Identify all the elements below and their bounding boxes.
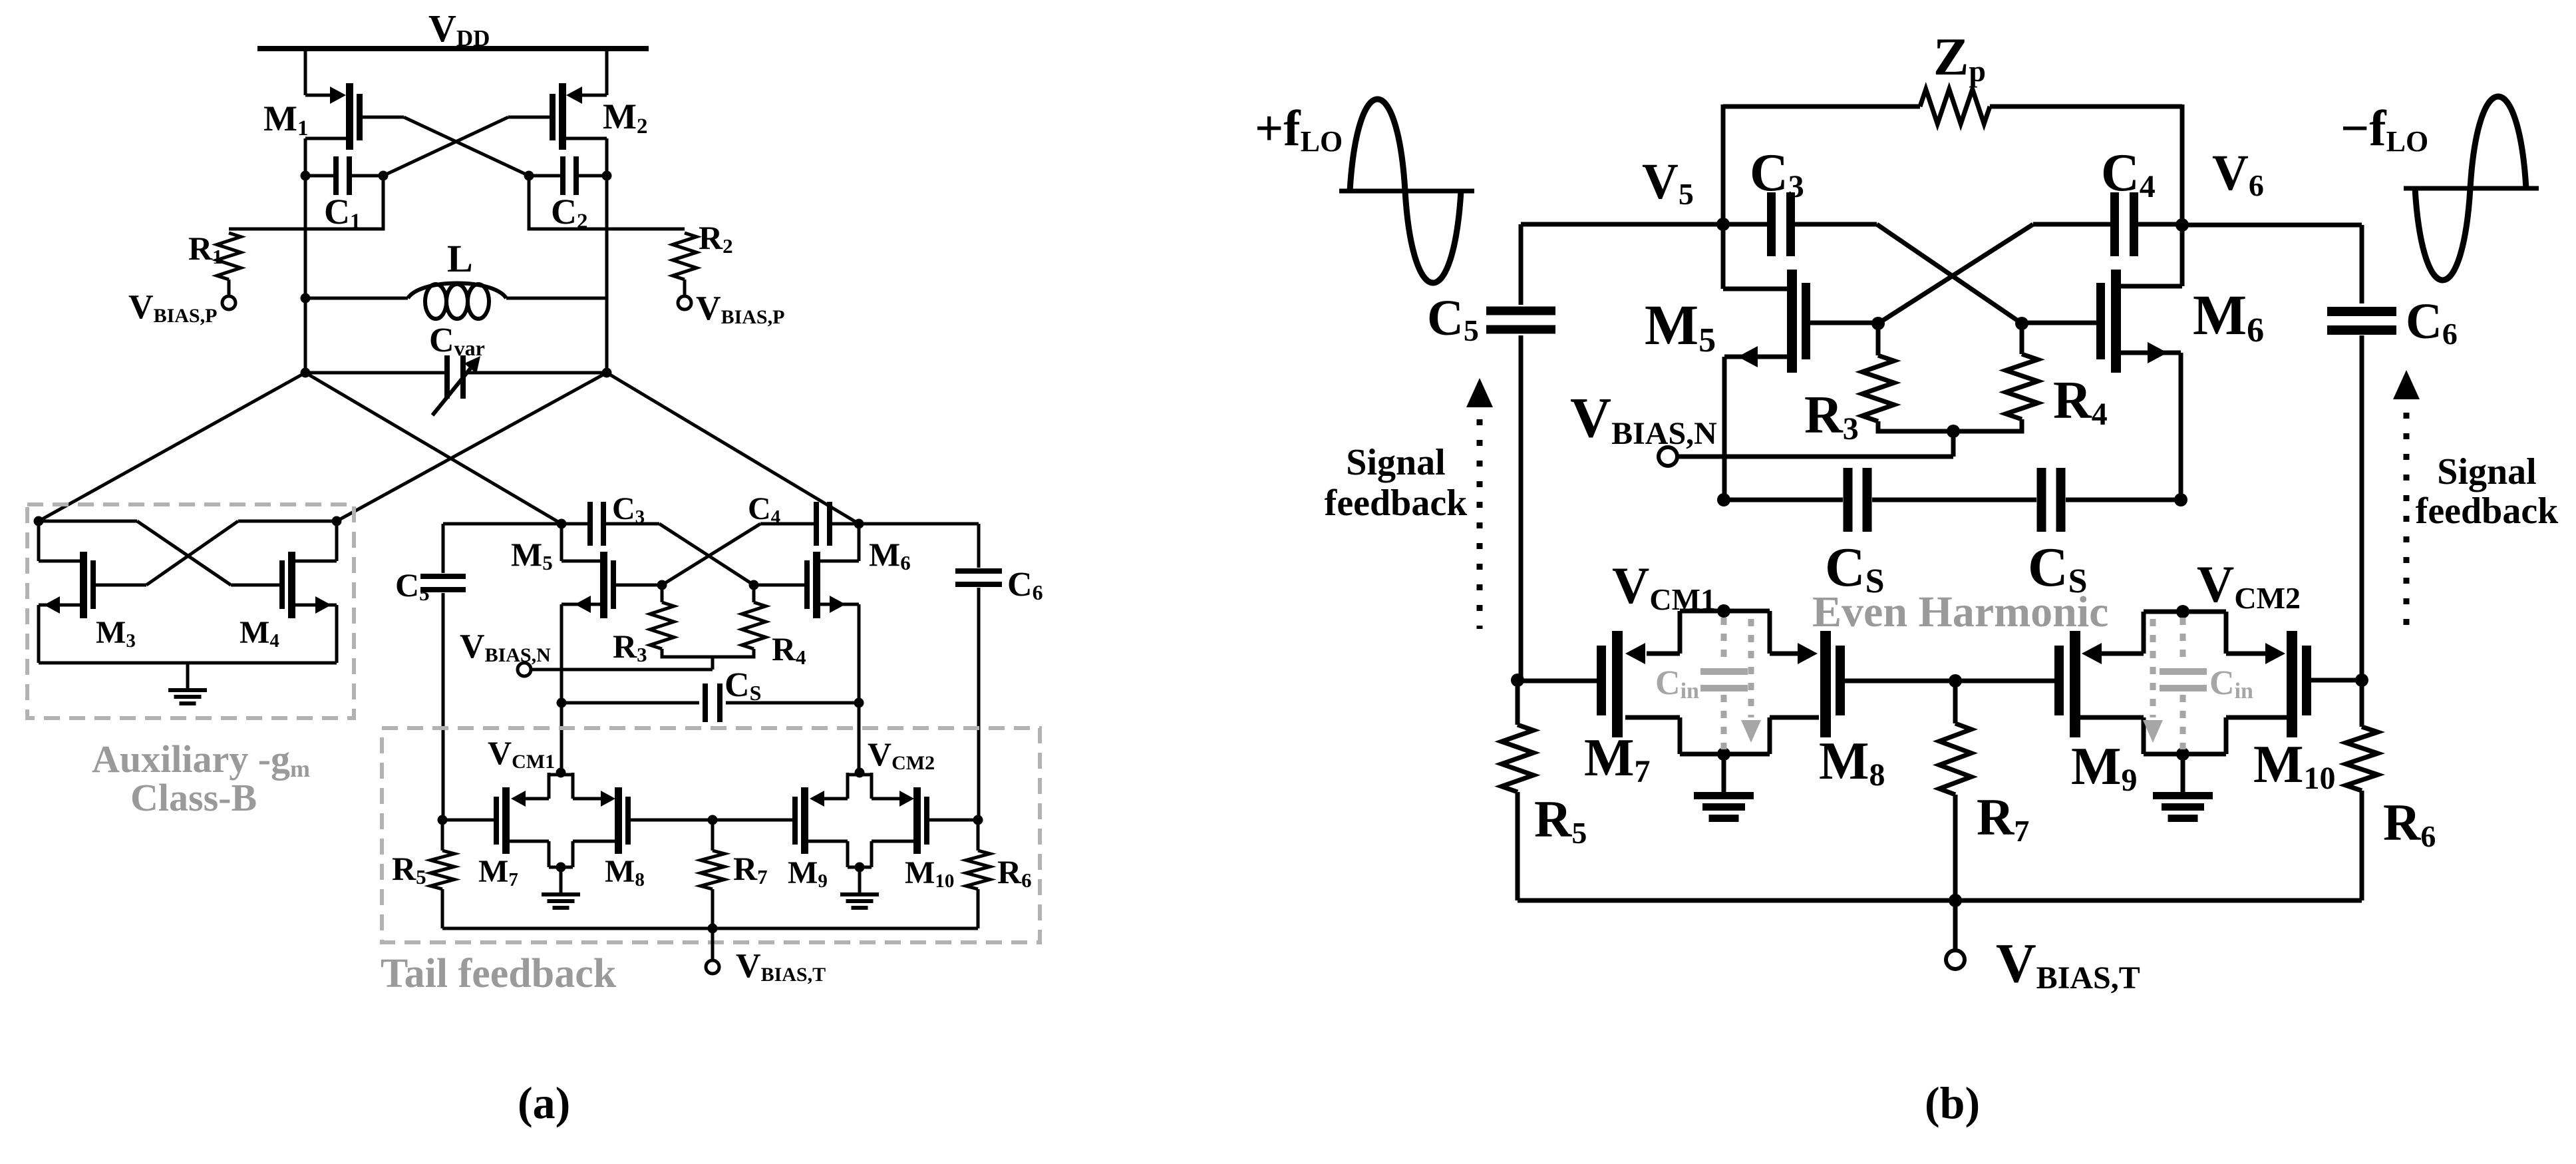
node M6 drain / tank-right diag: [854, 519, 864, 529]
label R3 (b): [1804, 386, 1859, 447]
label Cin (b right): [2209, 664, 2253, 703]
label VBIAS,T (a): [736, 947, 826, 986]
label M9 (a): [788, 855, 828, 892]
label M6 (b): [2193, 283, 2264, 349]
label M3: [96, 615, 136, 652]
resistor R4 (a): [713, 585, 766, 657]
label -fLO: [2340, 100, 2428, 158]
wire tail bottom rail (a): [442, 927, 978, 930]
transistor M2 (PMOS): [508, 51, 607, 373]
transistor M8 (b): [1820, 631, 2054, 737]
wire C5 drop (b): [1519, 224, 1524, 305]
node aux top-left: [34, 516, 44, 526]
transistor M8 (a): [615, 787, 790, 854]
resistor R6 (b): [2346, 680, 2378, 900]
node bridge bottom (a left): [556, 863, 566, 873]
wire V6 row right: [2182, 223, 2362, 228]
svg-text:L: L: [447, 237, 473, 280]
wire tank-left to M5 drain (diagonal): [305, 373, 562, 524]
label Zp: [1933, 28, 1986, 88]
wire C6 drop (a): [977, 524, 981, 568]
node R3R4 junction (b): [1947, 425, 1960, 438]
label Class-B: [130, 776, 257, 819]
wire C4 rail left corner: [760, 522, 814, 526]
wire C4 to M5 gate (diagonal): [662, 524, 760, 585]
svg-text:Signal: Signal: [2437, 451, 2536, 492]
label M10 (a): [905, 855, 954, 892]
label feedback (left): [1325, 483, 1468, 524]
label VDD: [428, 7, 490, 51]
label R6 (b): [2383, 793, 2436, 853]
label R4 (a): [772, 630, 806, 669]
label R5 (a): [392, 850, 426, 888]
label Cin (b left): [1655, 664, 1699, 703]
wire C6 drop (b): [2360, 225, 2364, 303]
capacitor C5 (a): [420, 574, 466, 820]
terminal VBIAS,P right: [678, 296, 691, 309]
terminal VBIAS,N (a): [518, 663, 531, 676]
bridge arms M9/M10 (a): [808, 773, 915, 867]
node bridge bottom (a right): [855, 863, 865, 873]
label M9 (b): [2071, 737, 2138, 798]
label Cs (a): [724, 666, 761, 705]
transistor M5 (a): [562, 524, 662, 773]
node tank right: [602, 368, 612, 378]
transistor M1 (PMOS): [305, 51, 404, 373]
node VCM1 (a): [556, 768, 566, 778]
resistor R3 (a): [650, 585, 713, 657]
wire Cs right (a): [726, 701, 859, 705]
node R7 top (a): [708, 815, 718, 825]
node VCM2 (a): [855, 768, 865, 778]
label C3 (b): [1750, 144, 1804, 204]
node M2 drain / C2 right: [602, 171, 612, 181]
sine wave +fLO: [1339, 99, 1474, 283]
node VCM1 (b): [1717, 604, 1730, 618]
bridge arms M7/M8 (a): [510, 773, 617, 867]
transistor M10 (a): [913, 787, 978, 854]
node R5 / M7 gate (a): [438, 815, 448, 825]
label VBIAS,P right: [696, 290, 784, 328]
label C4 (b): [2101, 144, 2156, 204]
node V5: [1716, 218, 1730, 231]
transistor M7 (a): [442, 787, 510, 854]
wire aux top-right rail: [238, 520, 337, 523]
transistor M6 (b): [2022, 225, 2182, 500]
label V6: [2212, 145, 2264, 202]
node M6 gate / R4: [749, 580, 759, 590]
ground (aux pair): [168, 663, 207, 705]
wire M3 gate cross diagonal: [146, 521, 238, 585]
capacitor Cs right (b): [2037, 468, 2181, 532]
resistor R6 (a): [966, 820, 990, 928]
capacitor C4 (a): [814, 502, 859, 546]
node Cs right / M6 source: [854, 698, 864, 708]
node Cs-right / M6 source (b): [2174, 493, 2187, 506]
wire bottom rail (b): [1518, 898, 2362, 903]
label Signal (left): [1346, 442, 1445, 483]
terminal VBIAS,N (b): [1659, 447, 1677, 466]
label M8 (a): [605, 854, 645, 890]
wire C2-left node down to R2: [529, 176, 685, 229]
capacitor C6 (a): [955, 568, 1002, 820]
net VDD power rail: [257, 46, 649, 51]
sine wave -fLO: [2404, 97, 2539, 280]
label +fLO: [1255, 100, 1343, 158]
terminal VBIAS,T (a): [706, 960, 719, 974]
label C6 (b): [2406, 293, 2458, 351]
label R4 (b): [2053, 371, 2108, 432]
node M5 gate / R3 (b): [1871, 317, 1885, 330]
label Signal (right): [2437, 451, 2536, 492]
node Cs left / M5 source: [557, 698, 567, 708]
svg-text:Signal: Signal: [1346, 442, 1445, 483]
signal feedback arrow right: [2393, 370, 2420, 626]
label VCM1 (a): [488, 734, 555, 773]
wire M4 gate cross diagonal: [137, 521, 231, 585]
dashed box Auxiliary class-B: [27, 504, 354, 718]
node inductor left: [301, 293, 311, 303]
label M4: [240, 615, 279, 652]
node VCM2 (b): [2176, 605, 2189, 618]
wire VBIAS,N line (b): [1677, 455, 1953, 459]
svg-text:Auxiliary -gm: Auxiliary -gm: [92, 737, 310, 782]
label C5 (b): [1427, 290, 1479, 347]
transistor M6 (a): [754, 524, 859, 773]
bridge arms M7/M8 (b): [1625, 611, 1819, 754]
svg-text:Class-B: Class-B: [130, 776, 257, 819]
label M2: [603, 97, 647, 138]
label R5 (b): [1534, 790, 1587, 850]
wire C4 rail to C6: [859, 522, 979, 526]
wire C4 to M5 gate diagonal (b): [1878, 224, 2033, 323]
label M10 (b): [2253, 735, 2336, 796]
capacitor C3 (b): [1723, 192, 1877, 256]
resistor R5 (b): [1502, 680, 1533, 900]
label M7 (b): [1584, 729, 1651, 789]
label Even Harmonic: [1812, 588, 2108, 636]
node R5 / M7 gate (b): [1511, 674, 1524, 687]
label Cs left (b): [1825, 536, 1885, 600]
wire M1 gate to C2 left plate (diagonal): [404, 117, 529, 176]
wire Zp rail left: [1723, 104, 1920, 224]
label C1: [324, 192, 361, 234]
wire tank-right to aux box (diagonal): [337, 373, 607, 521]
label L: [447, 237, 473, 280]
label V5: [1642, 154, 1694, 211]
wire tank-left to aux box (diagonal): [39, 373, 305, 521]
inductor L: [305, 284, 607, 319]
wire tank-right to M6 drain (diagonal): [607, 373, 859, 524]
resistor R1: [217, 233, 241, 295]
label VCM2 (a): [868, 735, 935, 774]
label VBIAS,N (b): [1570, 385, 1717, 451]
transistor M3 (NMOS): [39, 521, 146, 663]
label VBIAS,T (b): [1996, 932, 2140, 996]
label Cvar: [429, 321, 485, 360]
node R6 / M10 gate / C6 (b): [2355, 674, 2368, 687]
wire C3 to M6 gate diagonal (b): [1877, 224, 2022, 323]
label M5 (a): [511, 536, 553, 574]
transistor M7 (b): [1518, 631, 1623, 737]
transistor M9 (b): [2054, 631, 2080, 737]
wire C3 left rail: [443, 522, 588, 526]
resistor R4 (b): [1953, 323, 2038, 431]
label C5 (a): [395, 566, 430, 605]
label R2: [699, 219, 733, 258]
svg-text:Tail feedback: Tail feedback: [381, 951, 617, 996]
capacitor Cs (a): [703, 683, 723, 722]
capacitor C2: [529, 156, 607, 195]
capacitor Cin (b right, parasitic): [2143, 618, 2207, 749]
varactor Cvar: [305, 355, 607, 415]
caption (a): [518, 1077, 570, 1128]
ground (M7/M8 a): [542, 867, 580, 910]
ground (M9/M10 a): [840, 867, 879, 910]
node aux top-right: [332, 516, 342, 526]
transistor M5 (b): [1723, 224, 1878, 500]
label R6 (a): [997, 853, 1032, 892]
wire Cs left (a): [562, 701, 699, 705]
resistor R5 (a): [430, 820, 454, 928]
node R6 / M10 gate (a): [973, 815, 983, 825]
signal feedback arrow left: [1466, 378, 1493, 629]
wire C1-right node down to R1: [229, 176, 383, 229]
transistor M10 (b): [2287, 631, 2362, 737]
terminal VBIAS,T (b): [1946, 950, 1965, 969]
wire VBIAS,T stem (a): [711, 928, 715, 960]
wire R3R4 to bias line (b): [1951, 431, 1956, 457]
label M8 (b): [1819, 732, 1885, 793]
node Cs-left / M5 source (b): [1717, 493, 1730, 506]
capacitor C6 (b): [2327, 307, 2396, 680]
resistor R7 (b): [1939, 681, 1971, 900]
label C2: [551, 192, 588, 234]
node M6 gate / R4 (b): [2015, 317, 2028, 330]
wire VBIAS,N line (a): [531, 668, 713, 672]
svg-text:Even Harmonic: Even Harmonic: [1812, 588, 2108, 636]
label M1: [263, 98, 308, 140]
node M1 drain / C1 left: [301, 171, 311, 181]
node VBIAS,T tap (a): [708, 924, 718, 934]
node bridge bottom (b left): [1717, 747, 1730, 761]
node C2 left (M1 gate bias): [524, 171, 534, 181]
wire C3 to M6 gate (diagonal): [659, 524, 754, 585]
label VCM1 (b): [1612, 556, 1716, 616]
wire R3R4 junction drop: [711, 657, 715, 670]
caption (b): [1925, 1077, 1980, 1128]
wire VBIAS,T stem (b): [1953, 900, 1958, 950]
label R7 (a): [733, 850, 768, 888]
label R3 (a): [613, 628, 647, 666]
label Cs right (b): [2028, 536, 2088, 600]
resistor R7 (a): [701, 820, 724, 928]
capacitor C5 (b): [1486, 307, 1555, 681]
wire aux source rail: [39, 662, 337, 665]
bridge arms M9/M10 (b): [2080, 612, 2287, 754]
node tank left: [301, 368, 311, 378]
capacitor C1: [305, 156, 383, 195]
resistor R2: [673, 233, 697, 295]
resistor R3 (b): [1862, 323, 1953, 431]
label VBIAS,P left: [128, 288, 217, 327]
capacitor C4 (b): [2033, 192, 2182, 256]
label Auxiliary -gm: [92, 737, 310, 782]
dashed box Tail feedback: [382, 728, 1040, 942]
label R7 (b): [1977, 788, 2029, 848]
ground (M7/M8 b): [1694, 754, 1754, 822]
node V6: [2175, 218, 2189, 232]
svg-text:feedback: feedback: [2416, 490, 2559, 532]
node bridge bottom (b right): [2176, 747, 2189, 761]
label M5 (b): [1645, 293, 1716, 359]
wire M2 gate to C1 right plate (diagonal): [383, 117, 508, 176]
wire aux top-left rail: [39, 520, 137, 523]
label Tail feedback: [381, 951, 617, 996]
capacitor Cin (b left, parasitic): [1700, 618, 1761, 749]
wire Zp rail right: [1990, 104, 2182, 224]
wire V5 row left: [1521, 222, 1723, 227]
node VBIAS,T tap (b): [1949, 894, 1962, 907]
transistor M9 (a): [713, 787, 808, 854]
svg-text:feedback: feedback: [1325, 483, 1468, 524]
svg-text:(b): (b): [1925, 1077, 1980, 1128]
label VBIAS,N (a): [460, 628, 551, 666]
node C1 right (M2 gate bias): [379, 171, 389, 181]
wire C5 drop (a): [442, 524, 445, 573]
label R1: [188, 230, 223, 268]
label M6 (a): [869, 536, 911, 574]
label VCM2 (b): [2197, 555, 2301, 615]
label C3 (a): [612, 491, 645, 528]
label C6 (a): [1007, 566, 1043, 604]
label feedback (right): [2416, 490, 2559, 532]
label C4 (a): [748, 491, 780, 528]
transistor M4 (NMOS): [231, 521, 337, 663]
node M5 drain / tank-left diag: [557, 519, 567, 529]
capacitor Cs left (b): [1724, 468, 2036, 532]
svg-text:(a): (a): [518, 1077, 570, 1128]
terminal VBIAS,P left: [222, 296, 236, 309]
ground (M9/M10 b): [2153, 754, 2213, 822]
node M5 gate / R3: [657, 580, 667, 590]
capacitor C3 (a): [587, 502, 659, 546]
resistor Zp: [1920, 89, 1990, 124]
node R7 top (b): [1949, 674, 1962, 687]
label M7 (a): [478, 854, 518, 890]
